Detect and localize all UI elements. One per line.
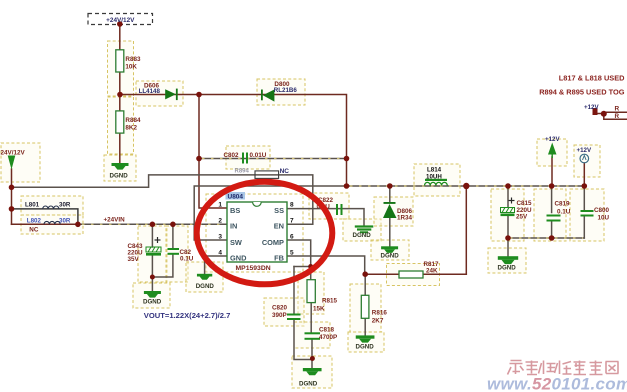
svg-text:DGND: DGND xyxy=(196,283,215,290)
svg-text:0.1U: 0.1U xyxy=(557,209,571,216)
svg-text:+12V: +12V xyxy=(584,104,599,111)
svg-text:390P: 390P xyxy=(272,312,287,319)
svg-text:FB: FB xyxy=(274,254,284,263)
svg-text:L802: L802 xyxy=(27,217,42,224)
svg-text:DGND: DGND xyxy=(381,253,400,260)
svg-text:4: 4 xyxy=(218,250,222,257)
svg-text:30R: 30R xyxy=(59,217,71,224)
svg-text:15K: 15K xyxy=(313,306,325,313)
svg-text:C818: C818 xyxy=(319,327,335,334)
svg-text:C820: C820 xyxy=(272,305,288,312)
svg-text:R883: R883 xyxy=(125,56,141,63)
svg-text:IN: IN xyxy=(230,222,237,231)
svg-text:2K7: 2K7 xyxy=(372,318,384,325)
svg-text:10U: 10U xyxy=(598,215,610,222)
svg-text:10K: 10K xyxy=(125,64,137,71)
svg-text:SS: SS xyxy=(274,206,284,215)
svg-text:7: 7 xyxy=(290,218,294,225)
svg-text:U804: U804 xyxy=(228,193,244,200)
svg-text:NC: NC xyxy=(29,227,39,234)
svg-text:NC: NC xyxy=(280,168,290,175)
svg-text:DGND: DGND xyxy=(356,344,375,351)
svg-text:+12V: +12V xyxy=(577,147,592,154)
svg-text:C815: C815 xyxy=(517,200,533,207)
svg-text:SW: SW xyxy=(230,238,242,247)
svg-text:MP1593DN: MP1593DN xyxy=(236,265,271,272)
svg-text:+24VIN: +24VIN xyxy=(104,217,126,224)
svg-text:24V/12V: 24V/12V xyxy=(1,150,26,157)
svg-text:VOUT=1.22X(24+2.7)/2.7: VOUT=1.22X(24+2.7)/2.7 xyxy=(144,311,231,320)
svg-text:L817 & L818 USED: L817 & L818 USED xyxy=(559,74,625,83)
svg-text:DGND: DGND xyxy=(299,381,318,388)
svg-text:+24V/12V: +24V/12V xyxy=(106,17,135,24)
svg-text:C802: C802 xyxy=(224,152,240,159)
svg-text:6: 6 xyxy=(290,234,294,241)
svg-text:4700P: 4700P xyxy=(319,334,337,341)
svg-text:C800: C800 xyxy=(594,207,610,214)
svg-text:8K2: 8K2 xyxy=(125,125,137,132)
svg-text:0.1U: 0.1U xyxy=(180,256,194,263)
svg-text:COMP: COMP xyxy=(262,238,284,247)
svg-text:8: 8 xyxy=(290,202,294,209)
svg-text:+12V: +12V xyxy=(545,136,560,143)
svg-text:1: 1 xyxy=(218,202,222,209)
svg-text:R816: R816 xyxy=(372,310,388,317)
svg-text:25V: 25V xyxy=(516,214,528,221)
svg-text:EN: EN xyxy=(274,222,284,231)
svg-text:DGND: DGND xyxy=(110,173,129,180)
svg-text:C819: C819 xyxy=(555,201,571,208)
svg-text:R: R xyxy=(615,106,620,113)
svg-text:30R: 30R xyxy=(59,202,71,209)
svg-text:R: R xyxy=(615,113,620,120)
svg-text:DGND: DGND xyxy=(143,299,162,306)
svg-text:2: 2 xyxy=(218,218,222,225)
svg-text:5: 5 xyxy=(290,250,294,257)
svg-text:R894 & R895 USED TOG: R894 & R895 USED TOG xyxy=(539,88,625,97)
svg-text:GND: GND xyxy=(230,254,247,263)
svg-text:RL21B6: RL21B6 xyxy=(274,87,298,94)
svg-text:R884: R884 xyxy=(125,117,141,124)
svg-text:L801: L801 xyxy=(25,202,40,209)
svg-text:3: 3 xyxy=(218,234,222,241)
svg-text:LL4148: LL4148 xyxy=(139,88,161,95)
svg-text:www.520101.com: www.520101.com xyxy=(487,375,627,392)
svg-text:BS: BS xyxy=(230,206,240,215)
svg-text:10UH: 10UH xyxy=(426,173,442,180)
svg-text:DGND: DGND xyxy=(353,232,372,239)
svg-text:DGND: DGND xyxy=(498,265,517,272)
svg-text:0.01U: 0.01U xyxy=(250,152,267,159)
svg-text:35V: 35V xyxy=(128,256,140,263)
svg-text:R815: R815 xyxy=(322,298,338,305)
svg-text:1R34: 1R34 xyxy=(397,215,413,222)
svg-text:R894: R894 xyxy=(235,169,250,175)
svg-text:24K: 24K xyxy=(426,268,438,275)
